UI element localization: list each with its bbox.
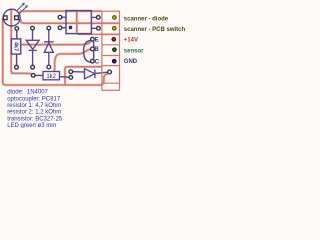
svg-text:resistor 2: 1,2 kOhm: resistor 2: 1,2 kOhm [7, 110, 61, 116]
pad: R2 left [31, 74, 35, 78]
transistor Q1 BC327-25 outline [84, 40, 94, 62]
wire: mid rail from resistor right to transistor E pad [21, 39, 93, 44]
LED D4 body circle [3, 9, 20, 26]
svg-text:sensor: sensor [124, 49, 144, 55]
svg-text:+14V: +14V [124, 38, 138, 44]
svg-text:E: E [95, 37, 99, 43]
svg-text:B: B [94, 47, 99, 53]
pad: D3 cathode [108, 70, 112, 74]
pad: Q1 emitter [91, 37, 95, 41]
svg-text:1k2: 1k2 [46, 74, 56, 80]
svg-text:GND: GND [124, 59, 138, 65]
diode D1 1N4007 (pointing down) [26, 30, 39, 66]
wire: loop around diode D3 [65, 67, 102, 85]
optocoupler U1 PC817 [62, 11, 97, 34]
pin 1 scanner diode [113, 16, 117, 20]
U1 pin-1 marker dot [69, 26, 73, 30]
pad: U1 pin 2 [58, 15, 62, 19]
pad: R1 top [15, 27, 19, 31]
pad: R1 bottom [15, 65, 19, 69]
svg-text:scanner - diode: scanner - diode [124, 17, 169, 23]
wire: LED vertical through resistor to 1k2 left pad [11, 9, 33, 75]
pad: D2 anode [47, 65, 51, 69]
pin 4 sensor [113, 48, 117, 52]
svg-text:4k7: 4k7 [13, 42, 19, 51]
resistor R1 4k7 (vertical) [11, 30, 20, 65]
connector colored pins [112, 16, 116, 63]
wire: vertical drop from top rail through opto box to +14V pin [77, 11, 119, 34]
pad: U1 pin 4 [97, 26, 101, 30]
transistor pin labels [94, 37, 99, 65]
svg-text:optocoupler: PC817: optocoupler: PC817 [7, 96, 61, 102]
resistor R2 1k2 (horizontal) [35, 72, 69, 81]
diode D3 1N4007 (pointing right) [73, 69, 108, 79]
svg-text:LED green ø3 mm: LED green ø3 mm [7, 123, 56, 128]
diode D2 1N4007 (pointing up) [44, 30, 54, 65]
pin 5 GND [112, 59, 116, 63]
connector J2 box (3 pins + pad cells) [102, 35, 120, 91]
pad: D2 cathode [47, 26, 51, 30]
wire: LED right pad up to top rail across to connector pin 1 [17, 11, 101, 16]
svg-text:transistor: BC327-25: transistor: BC327-25 [7, 116, 63, 122]
pin 2 scanner PCB switch [113, 27, 117, 31]
pad: LED anode (square) [15, 16, 19, 20]
pin 3 +14V [112, 38, 116, 42]
pad: D3 anode [69, 70, 73, 74]
pad: U1 pin 3 [96, 16, 100, 20]
connector J1 box (2 pins) [102, 11, 120, 34]
wire: transistor B pad to under 1k2 resistor [55, 49, 93, 72]
wire halo overlay [3, 9, 120, 85]
LED D4 light arrows [17, 3, 28, 13]
pad: R2 right [69, 76, 73, 80]
pad: Q1 collector [91, 59, 95, 63]
pad: D1 cathode [31, 65, 35, 69]
parts list text [7, 90, 63, 130]
pads (white with dark ring) [3, 15, 111, 79]
svg-text:diode: 1N4007: diode: 1N4007 [7, 90, 48, 96]
wire: LED left pad down left edge to bottom rail [3, 18, 108, 86]
pad: Q1 base [91, 47, 95, 51]
pad: U1 pin 1 [58, 26, 62, 30]
svg-text:C: C [95, 59, 100, 65]
pad: LED cathode (square) [3, 16, 7, 20]
connector labels [124, 17, 186, 66]
svg-text:resistor 1: 4,7 kOhm: resistor 1: 4,7 kOhm [7, 103, 61, 109]
wire: row B from LED right pad to optocoupler right bottom pad [17, 19, 119, 24]
svg-text:scanner - PCB switch: scanner - PCB switch [124, 27, 186, 33]
pad: D1 anode [31, 26, 35, 30]
